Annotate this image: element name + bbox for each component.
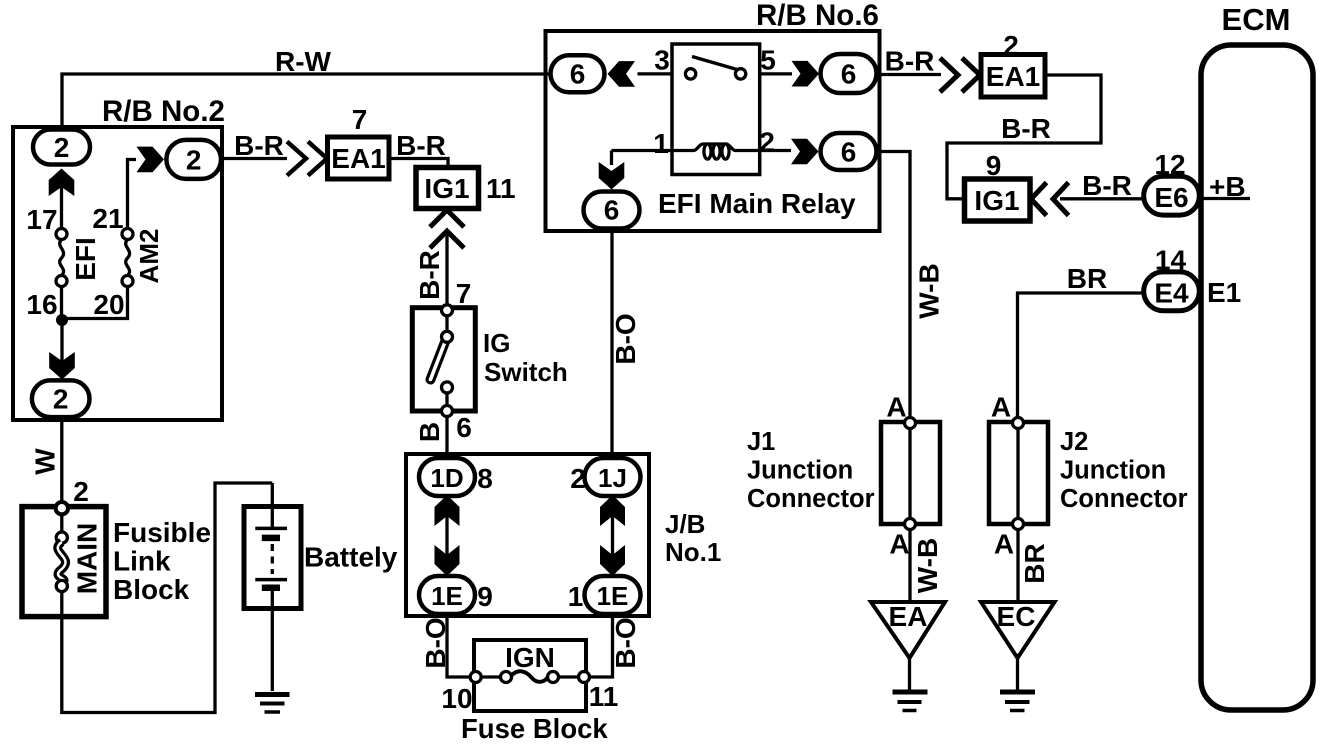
svg-text:R/B No.6: R/B No.6	[756, 0, 879, 32]
svg-text:Junction: Junction	[1060, 457, 1166, 485]
wire 1J to 1E right	[611, 496, 614, 576]
svg-text:J/B: J/B	[665, 509, 705, 539]
wire coil to oval 6 right mid	[760, 149, 791, 152]
junction connector J2	[989, 418, 1048, 530]
svg-text:MAIN: MAIN	[72, 523, 103, 595]
svg-text:W-B: W-B	[912, 538, 943, 593]
svg-text:2: 2	[186, 145, 202, 176]
svg-text:EFI Main Relay: EFI Main Relay	[658, 188, 856, 219]
arrow down (left pair)	[435, 545, 460, 576]
ground symbol battery	[255, 695, 290, 713]
chevron connector up below IG1	[430, 210, 464, 248]
wire W-B relay to J1	[877, 152, 910, 419]
wire 1E right to fuse block	[589, 614, 613, 677]
wire B-R from oval2 to EA1	[221, 157, 287, 160]
battery box	[244, 507, 301, 609]
svg-text:BR: BR	[1019, 543, 1050, 583]
svg-text:1J: 1J	[598, 463, 627, 493]
wire AM2 up to oval 2 right	[128, 160, 137, 229]
svg-text:EFI: EFI	[70, 237, 101, 281]
svg-text:ECM: ECM	[1222, 2, 1291, 37]
svg-text:Switch: Switch	[484, 357, 568, 387]
arrow right into oval 6 top	[792, 61, 820, 87]
svg-text:1: 1	[653, 128, 669, 159]
ground triangle EC	[981, 602, 1055, 658]
fuse MAIN	[56, 532, 67, 592]
connector oval 2 (top of R/B No.2)	[33, 130, 90, 165]
svg-text:EA1: EA1	[986, 61, 1040, 92]
wire switch to oval 6 left	[638, 72, 673, 75]
wire inside fusible link	[60, 514, 63, 532]
svg-text:21: 21	[92, 203, 123, 234]
wire fusible link to battery	[62, 483, 272, 713]
wire J1 to EA ground	[908, 530, 911, 603]
svg-text:2: 2	[53, 384, 69, 415]
svg-text:Block: Block	[113, 574, 190, 605]
svg-text:A: A	[886, 392, 906, 423]
arrow down into oval 6 bottom	[599, 162, 625, 190]
connector oval 1E (pin 9)	[419, 576, 475, 614]
svg-text:A: A	[994, 529, 1014, 560]
ECM box	[1201, 45, 1313, 710]
wire junction to oval 2 bottom	[60, 320, 63, 381]
svg-text:2: 2	[1003, 30, 1019, 61]
svg-text:5: 5	[760, 45, 776, 76]
svg-text:2: 2	[570, 463, 586, 494]
svg-text:3: 3	[654, 45, 670, 76]
connector oval 6 (right mid)	[821, 133, 877, 170]
svg-text:9: 9	[986, 150, 1002, 181]
svg-text:6: 6	[841, 137, 857, 168]
svg-text:No.1: No.1	[665, 537, 721, 567]
connector oval 2 (right, to EA1)	[166, 140, 221, 179]
svg-text:B-R: B-R	[234, 130, 284, 161]
wire from connector 2 to fuse EFI	[60, 170, 63, 229]
svg-text:1: 1	[568, 581, 584, 612]
svg-text:7: 7	[352, 104, 368, 135]
svg-text:IG: IG	[483, 328, 510, 358]
fuse block box	[474, 640, 586, 711]
arrow down (right pair)	[600, 545, 625, 576]
svg-text:9: 9	[477, 581, 493, 612]
svg-text:R/B No.2: R/B No.2	[102, 95, 225, 128]
junction block box J/B No.1	[406, 454, 649, 616]
svg-text:B-R: B-R	[1001, 113, 1051, 144]
wire EA1 to IG1	[389, 159, 448, 168]
svg-text:B: B	[414, 422, 445, 442]
svg-text:AM2: AM2	[134, 229, 164, 284]
wire coil to oval 6 bottom	[610, 151, 613, 166]
svg-text:A: A	[991, 392, 1011, 423]
svg-text:Battely: Battely	[304, 542, 398, 573]
connector oval 2 (bottom of R/B No.2)	[32, 380, 90, 417]
chevron connector >> before EA1	[287, 142, 327, 176]
svg-text:A: A	[889, 529, 909, 560]
svg-text:1E: 1E	[431, 581, 463, 611]
wire EA1 to IG1 pin9	[947, 75, 1101, 199]
svg-text:2: 2	[73, 476, 89, 507]
arrow up (right pair)	[600, 495, 625, 526]
wire +B stub	[1199, 197, 1250, 200]
fuse EFI	[56, 229, 67, 287]
relay inner box	[672, 44, 760, 175]
chevron connector << after IG1	[1031, 183, 1069, 216]
wire J2 to EC ground	[1016, 530, 1019, 603]
connector oval E6	[1144, 176, 1200, 215]
svg-text:1E: 1E	[597, 581, 629, 611]
junction dot	[56, 314, 68, 326]
relay coil	[612, 144, 760, 159]
connector oval 1E (pin 1)	[585, 576, 641, 614]
chevron connector >> before EA1 pin2	[940, 58, 980, 92]
svg-text:Junction: Junction	[747, 457, 853, 485]
svg-text:6: 6	[604, 195, 620, 226]
svg-text:EC: EC	[997, 601, 1036, 632]
svg-text:B-R: B-R	[1082, 170, 1132, 201]
svg-text:Connector: Connector	[1060, 485, 1188, 513]
svg-text:B-O: B-O	[610, 617, 641, 668]
terminal circle 2	[56, 502, 68, 514]
wire BR E4 to J2	[1018, 293, 1145, 418]
connector oval 6 (left)	[551, 55, 605, 92]
svg-text:17: 17	[26, 204, 57, 235]
svg-text:E4: E4	[1154, 278, 1189, 309]
svg-text:6: 6	[456, 412, 472, 443]
svg-text:Fuse Block: Fuse Block	[461, 713, 608, 744]
svg-text:J2: J2	[1060, 428, 1088, 456]
ground triangle EA	[871, 602, 945, 658]
wire oval6 top to EA1	[877, 73, 941, 76]
wire junction branch to AM2	[62, 287, 128, 319]
svg-text:E1: E1	[1207, 277, 1241, 308]
wire switch to oval 6 right top	[760, 72, 792, 75]
svg-text:20: 20	[93, 289, 124, 320]
relay switch	[685, 57, 745, 80]
svg-text:10: 10	[441, 683, 472, 714]
svg-text:Link: Link	[113, 546, 171, 577]
terminal box IG1 (pin 11)	[416, 168, 479, 209]
relay block box R/B No.6	[546, 31, 880, 231]
relay block box R/B No.2	[13, 127, 222, 420]
svg-text:R-W: R-W	[275, 46, 332, 77]
svg-text:B-R: B-R	[396, 130, 446, 161]
svg-text:Fusible: Fusible	[113, 517, 211, 548]
wire B-R to E6	[1060, 197, 1144, 200]
connector oval 1J (pin 2)	[585, 458, 641, 496]
svg-text:IG1: IG1	[424, 173, 469, 204]
connector oval 6 (right top)	[821, 54, 877, 93]
wire 1E left to fuse block	[447, 614, 471, 677]
svg-text:IGN: IGN	[505, 642, 555, 673]
wire B-R to IG switch	[445, 232, 448, 305]
IG switch terminals and blade	[431, 305, 453, 417]
wire EA to ground	[908, 656, 911, 691]
fusible link block box	[22, 507, 106, 617]
svg-text:W-B: W-B	[914, 263, 945, 318]
svg-text:7: 7	[456, 278, 472, 309]
svg-text:IG1: IG1	[974, 185, 1019, 216]
svg-text:1D: 1D	[430, 463, 463, 493]
arrow right into oval 6 mid	[791, 139, 819, 165]
IG switch box	[412, 308, 475, 411]
svg-text:16: 16	[26, 289, 57, 320]
terminal box IG1 (pin 9)	[965, 179, 1031, 221]
svg-text:B-R: B-R	[885, 46, 935, 77]
svg-text:2: 2	[759, 127, 775, 158]
svg-text:11: 11	[589, 681, 619, 712]
svg-text:+B: +B	[1209, 171, 1246, 202]
connector oval 1D (pin 8)	[419, 458, 475, 496]
svg-text:11: 11	[486, 173, 516, 204]
svg-text:E6: E6	[1154, 182, 1188, 213]
svg-text:B-O: B-O	[610, 313, 641, 364]
svg-text:EA: EA	[889, 601, 928, 632]
fuse AM2	[122, 229, 133, 287]
svg-text:BR: BR	[1067, 263, 1107, 294]
junction connector J1	[881, 418, 940, 530]
ground symbol EA	[893, 692, 928, 711]
wire B-O relay to 1J	[610, 229, 613, 459]
svg-text:EA1: EA1	[331, 143, 385, 174]
wire EC to ground	[1016, 656, 1019, 691]
connector oval E4	[1144, 272, 1200, 311]
arrow up into oval 2	[49, 169, 75, 197]
wire IG switch to J/B No.1	[445, 417, 448, 459]
arrow into oval 2 right	[137, 147, 165, 173]
wire W from R/B No.2 to fusible link	[60, 420, 63, 502]
terminal box EA1 (pin 2)	[981, 55, 1045, 98]
wire R-W top	[62, 74, 552, 131]
svg-text:2: 2	[54, 132, 70, 163]
svg-text:J1: J1	[747, 428, 775, 456]
arrow left into oval 6	[608, 61, 636, 87]
svg-text:8: 8	[477, 463, 493, 494]
arrow up (left pair)	[435, 495, 460, 526]
svg-text:6: 6	[570, 59, 586, 90]
wire fuse EFI to junction	[60, 287, 63, 317]
svg-text:Connector: Connector	[747, 485, 875, 513]
arrow down to bottom oval 2	[49, 352, 75, 380]
ground symbol EC	[1000, 692, 1035, 711]
connector oval 6 (bottom)	[584, 192, 640, 229]
svg-text:B-R: B-R	[414, 250, 445, 300]
svg-text:W: W	[30, 448, 61, 475]
wire 1D to 1E	[445, 496, 448, 576]
battery symbol	[255, 483, 287, 691]
svg-text:6: 6	[841, 59, 857, 90]
fuse IGN	[470, 671, 589, 682]
svg-text:B-O: B-O	[420, 617, 451, 668]
terminal box EA1 (pin 7)	[328, 137, 390, 179]
